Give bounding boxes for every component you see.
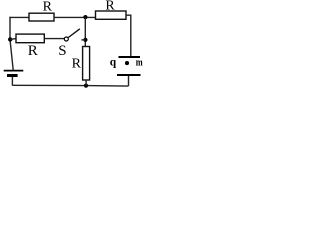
capacitor bottom plate (117, 74, 141, 76)
svg-text:R: R (43, 0, 53, 14)
wire left vertical (10, 17, 13, 70)
battery long plate (4, 70, 24, 72)
wire R4 to switch (44, 38, 64, 40)
battery short plate (7, 74, 18, 77)
node D (bottom junction dot) (84, 84, 88, 88)
node C (left junction dot) (8, 37, 12, 41)
svg-text:R: R (105, 0, 115, 14)
svg-text:R: R (72, 56, 82, 71)
wire top middle (54, 16, 96, 18)
resistor R2 (top-right box) (96, 11, 127, 19)
resistor R4 (second branch box) (16, 34, 44, 43)
charged particle dot (125, 61, 129, 65)
svg-text:m: m (136, 56, 143, 68)
switch S blade (68, 29, 80, 38)
wire branch to R4 (10, 38, 16, 41)
wire middle vertical upper (84, 17, 86, 46)
resistor R1 (top-left box) (29, 13, 54, 21)
svg-text:R: R (28, 43, 38, 59)
wire top-left horizontal (9, 16, 29, 18)
node A (top junction dot) (83, 15, 87, 19)
wire capacitor bottom lead (128, 76, 130, 86)
resistor R3 (middle vertical box) (83, 47, 90, 81)
wire middle vertical lower (85, 80, 87, 86)
wire battery bottom lead (11, 77, 13, 86)
svg-text:q: q (110, 56, 117, 68)
wire switch stub (81, 39, 85, 41)
wire bottom (12, 84, 128, 87)
wire top-right corner (126, 15, 131, 56)
switch S pivot circle (64, 37, 68, 41)
node B (switch junction dot) (83, 38, 87, 42)
capacitor top plate (119, 56, 141, 58)
svg-text:S: S (58, 43, 66, 59)
